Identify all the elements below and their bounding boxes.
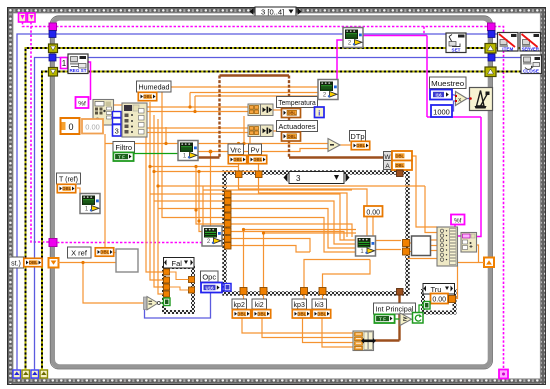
control Temperatura bbox=[282, 109, 301, 118]
wire h y171 bbox=[154, 171, 259, 173]
constant %f pink (left) bbox=[76, 97, 89, 108]
wire case t5 bbox=[196, 167, 231, 225]
reinitialize loop glyph bbox=[413, 313, 424, 324]
wire case stairs top tunnel A bbox=[239, 178, 368, 237]
wire v x166 bbox=[165, 127, 167, 144]
tunnel olive up-arrow right y48 bbox=[485, 44, 496, 54]
wire brown v x219 bbox=[218, 76, 220, 158]
wire case bottom up kp2 bbox=[244, 230, 357, 289]
wire brown v x399 below case bbox=[398, 295, 400, 341]
orange wire mesh left verticals bbox=[58, 87, 484, 347]
0.00 indicator in big case bbox=[364, 206, 383, 217]
bundle node bbox=[353, 331, 376, 351]
svg-text:0: 0 bbox=[68, 122, 73, 132]
green boolean wires bbox=[134, 154, 424, 320]
comparison node 1 bbox=[248, 104, 273, 116]
wire ki2 stem bbox=[263, 294, 265, 309]
wire h y128 bbox=[147, 127, 248, 129]
wire kp3 stem bbox=[303, 294, 305, 309]
sequence selector 3 [0..4] bbox=[250, 7, 302, 17]
label ki3 bbox=[312, 299, 327, 309]
control Vrc DBL bbox=[228, 155, 246, 163]
tunnel blue on left loop border y33 bbox=[49, 31, 56, 38]
wire brown bundle out bbox=[375, 339, 400, 341]
svg-text:REG ST: REG ST bbox=[69, 68, 86, 73]
sequence local (pink) top-left 1 bbox=[19, 13, 27, 22]
wire pink icon2b up bbox=[337, 40, 343, 88]
svg-text:X ref: X ref bbox=[71, 249, 88, 258]
wire pink REG to scan bbox=[88, 62, 91, 100]
big case top tunnels bbox=[236, 171, 263, 178]
DataSocket REG icon bbox=[68, 54, 88, 74]
wire scan to unbundle bbox=[113, 115, 122, 117]
while loop border bbox=[53, 18, 490, 366]
svg-text:0.00: 0.00 bbox=[366, 209, 380, 216]
label kp3 bbox=[292, 299, 307, 309]
wire olive y48 outside right bbox=[495, 47, 541, 49]
wire case stairs s2 bbox=[231, 201, 356, 244]
svg-text:st.): st.) bbox=[11, 261, 21, 268]
scan from string node bbox=[93, 100, 114, 126]
subtract node triangle bbox=[328, 139, 340, 152]
wire build bottom to SR right bbox=[457, 262, 484, 264]
wire cmp1 down bbox=[243, 116, 245, 144]
svg-text:3 [0..4]: 3 [0..4] bbox=[261, 7, 284, 16]
svg-text:1: 1 bbox=[62, 59, 67, 68]
svg-text:Tru: Tru bbox=[431, 285, 442, 294]
DataSocket ITEM icon bbox=[498, 33, 519, 52]
wire pink left vertical (sequence local 2 down to y242) bbox=[31, 22, 49, 242]
Tru selector tunnel green bbox=[424, 302, 431, 310]
svg-text:SERVER: SERVER bbox=[522, 46, 539, 51]
wire icon2c top feeds bbox=[202, 186, 204, 226]
wire v x162 bbox=[162, 87, 231, 218]
wire case stairs s5 bbox=[231, 224, 352, 237]
svg-text:DBL: DBL bbox=[395, 163, 404, 168]
build array node bbox=[437, 227, 458, 266]
svg-text:Humedad: Humedad bbox=[139, 83, 170, 92]
wire blue muestreo bbox=[452, 95, 456, 96]
control st DBL bbox=[24, 258, 42, 266]
wire v x146 bbox=[146, 107, 164, 272]
wire h y111 bbox=[147, 111, 248, 113]
wire v x158 bbox=[158, 119, 164, 294]
wire h y107 bbox=[147, 106, 248, 108]
wire olive left vertical 2 bbox=[42, 72, 49, 371]
wire v x105 Xref feed bbox=[104, 134, 106, 247]
wire blue multiply out bbox=[467, 98, 471, 100]
control kp2 bbox=[232, 310, 250, 318]
wire 0.00 feed bbox=[372, 216, 374, 236]
tunnel blue right y33 bbox=[488, 31, 495, 38]
wire brown v x289 bbox=[288, 76, 290, 158]
subVI icon PID in case bbox=[356, 236, 376, 256]
wire case bottom up kp3 bbox=[304, 260, 370, 289]
wire pink %f to format bbox=[455, 224, 461, 236]
label Temperatura bbox=[277, 97, 318, 108]
subVI plain white bbox=[116, 249, 138, 272]
wire h y143 DTp in1 bbox=[105, 143, 328, 145]
svg-text:ki3: ki3 bbox=[315, 302, 324, 309]
pink string wires solid bbox=[88, 36, 481, 237]
subVI icon PID 2c bbox=[202, 226, 222, 246]
label DTp bbox=[350, 131, 366, 142]
wire stair from WA x416 bbox=[412, 156, 437, 227]
shift register orange right (up arrow) y262 bbox=[484, 258, 494, 268]
wire case t3 bbox=[158, 208, 231, 210]
svg-text:Actuadores: Actuadores bbox=[279, 122, 316, 131]
svg-text:DBL: DBL bbox=[287, 111, 296, 116]
wire ki2 to bundle bbox=[262, 319, 355, 338]
control Int Principal TF bbox=[374, 314, 394, 323]
wire cmp2 down bbox=[249, 137, 251, 152]
indicator DTp DBL bbox=[351, 141, 369, 149]
svg-text:kp2: kp2 bbox=[234, 302, 245, 309]
wire h y92 to icon2b bbox=[190, 92, 318, 94]
wire Vrc stem bbox=[238, 144, 240, 156]
wire magenta y242 inside to icon2c bbox=[57, 242, 202, 244]
control Opc U16 bbox=[201, 283, 222, 293]
wire h y166 bbox=[150, 166, 239, 168]
constant "1" pink bbox=[61, 58, 68, 69]
svg-text:%f: %f bbox=[78, 101, 86, 108]
0.00 indicator in Tru bbox=[431, 294, 449, 304]
wire brown v x399 stub top bbox=[398, 170, 400, 173]
svg-text:0.00: 0.00 bbox=[85, 123, 100, 132]
label kp2 bbox=[232, 299, 247, 309]
wire v x150 bbox=[150, 102, 164, 280]
wire subVI2 outs bbox=[431, 239, 438, 241]
wire pink seq local 1 to y26 bbox=[23, 22, 50, 27]
label Vrc bbox=[228, 144, 244, 155]
svg-text:DBL: DBL bbox=[287, 134, 296, 139]
control ki2 bbox=[252, 310, 270, 318]
svg-text:i: i bbox=[318, 111, 320, 118]
orange junction dots bbox=[81, 105, 265, 264]
wire kp2 stem bbox=[243, 294, 245, 309]
svg-text:T (ref): T (ref) bbox=[59, 177, 78, 184]
svg-text:Opc: Opc bbox=[202, 273, 216, 282]
wire pink v x481 bbox=[476, 117, 481, 237]
wire format out bbox=[475, 245, 479, 263]
svg-text:0.00: 0.00 bbox=[432, 296, 446, 303]
wire kp2 to bundle bbox=[242, 319, 355, 334]
tunnel pink on right loop border y26 bbox=[488, 23, 496, 31]
wire pink h y117 bbox=[427, 116, 481, 118]
svg-text:kp3: kp3 bbox=[294, 302, 305, 309]
svg-text:3: 3 bbox=[115, 127, 119, 136]
big case bottom tunnel brown bbox=[397, 289, 404, 296]
svg-text:Muestreo: Muestreo bbox=[431, 79, 464, 88]
index array node bbox=[122, 103, 147, 137]
wire case stairs s1 bbox=[231, 194, 356, 240]
wire cmp1 to Temperatura bbox=[273, 109, 281, 111]
control Pv DBL bbox=[248, 155, 266, 163]
tunnel olive down-arrow left y71 bbox=[49, 68, 58, 77]
svg-text:Vrc: Vrc bbox=[230, 145, 241, 154]
wire kp3 to bundle bbox=[303, 319, 356, 343]
case structure big (selector 3) bbox=[225, 172, 408, 294]
subVI icon PID 1b bbox=[80, 194, 100, 214]
big case right tunnels bbox=[403, 240, 410, 256]
wire DTp out bbox=[340, 144, 351, 146]
wire blue y57 outside right to CLOSE bbox=[494, 57, 522, 59]
svg-text:CLOSE: CLOSE bbox=[523, 68, 539, 73]
wire brown h y75 bbox=[220, 74, 290, 76]
wire case t7 t8 interior bbox=[231, 239, 310, 253]
wire green loopicon to Tru selector bbox=[419, 305, 424, 313]
tunnel olive down-arrow left y48 bbox=[49, 44, 58, 53]
wire Tref to icon1b bbox=[77, 188, 80, 193]
wire Xref out bbox=[114, 252, 116, 254]
tunnel olive up-arrow right y71 bbox=[485, 67, 496, 77]
wire magenta right of loop to x504 bbox=[494, 27, 504, 371]
wire case stairs s4 bbox=[231, 218, 356, 253]
subVI icon PID 1a bbox=[178, 141, 198, 161]
wire olive y71 outside right bbox=[495, 71, 541, 73]
constant %f pink right bbox=[451, 215, 465, 225]
wire brown from PID1a bbox=[198, 156, 220, 158]
wire blue y33 outside right to ITEM bbox=[494, 33, 499, 35]
wire h y186 long bbox=[158, 185, 425, 187]
label T (ref) bbox=[57, 173, 81, 184]
label Opc bbox=[201, 271, 219, 282]
wire icon out1 bbox=[374, 240, 401, 242]
greater-than node bbox=[400, 313, 412, 326]
label Filtro bbox=[113, 142, 135, 153]
indicator Humedad DBL bbox=[138, 92, 156, 100]
indicator X ref DBL bbox=[95, 248, 113, 256]
comparison node 2 bbox=[248, 125, 273, 137]
wire h y96 to icon2b bbox=[195, 95, 318, 97]
wire green eq0 to Fal selector bbox=[160, 302, 164, 304]
wire olive left vertical 1 bbox=[26, 48, 50, 370]
svg-text:%f: %f bbox=[454, 217, 462, 224]
tunnel pink left loop border y242 bbox=[49, 239, 57, 247]
DataSocket SERVER icon bbox=[520, 33, 541, 52]
Fal case right tunnels bbox=[189, 277, 195, 294]
svg-text:SET: SET bbox=[452, 47, 461, 52]
Fal selector tunnel green bbox=[164, 298, 171, 306]
wire case bottom up ki2 bbox=[264, 233, 357, 288]
wire h y190 long bbox=[203, 189, 352, 191]
svg-text:Pv: Pv bbox=[251, 145, 260, 154]
label Pv bbox=[249, 144, 262, 155]
equal to zero node bbox=[144, 297, 161, 310]
wire Xest down to cmp bbox=[83, 263, 146, 304]
multiply node bbox=[455, 92, 467, 106]
wire case bottom up ki3 bbox=[323, 260, 371, 289]
Tru right tunnel orange bbox=[449, 296, 456, 303]
svg-text:I16: I16 bbox=[435, 92, 442, 97]
sequence local (pink) top-left 2 bbox=[28, 13, 36, 22]
label X ref bbox=[68, 247, 92, 258]
tunnel pink bottom border bbox=[499, 370, 508, 379]
svg-text:Int Principal: Int Principal bbox=[376, 305, 414, 314]
wire olive y48 bbox=[56, 47, 485, 49]
control Filtro TF bbox=[113, 152, 133, 161]
DataSocket Write SET icon bbox=[446, 33, 466, 53]
big case top tunnel brown bbox=[397, 170, 404, 177]
subVI icon PID 2b bbox=[318, 80, 338, 100]
label ki2 bbox=[252, 299, 267, 309]
label Actuadores bbox=[277, 121, 318, 132]
constant 0.00 gray bbox=[82, 119, 103, 134]
wire ki3 stem bbox=[322, 294, 324, 309]
wire case stairs s3 bbox=[231, 209, 356, 249]
wire Tru tunnel up bbox=[454, 266, 458, 299]
svg-text:ki2: ki2 bbox=[255, 302, 264, 309]
wire case t6 bbox=[199, 172, 231, 232]
wire case right tunnel to subVI2 bbox=[409, 242, 412, 244]
svg-text:A: A bbox=[385, 163, 390, 170]
wire brown h y157 to WA bbox=[289, 156, 384, 158]
svg-text:Temperatura: Temperatura bbox=[278, 98, 316, 107]
wire pink dashed x424 bbox=[423, 27, 425, 36]
wire v x154 bbox=[154, 115, 164, 287]
tunnel blue right y57 bbox=[488, 54, 495, 61]
wire SR to subVI y262 bbox=[58, 262, 116, 264]
control Actuadores bbox=[282, 132, 301, 141]
local variable W A bbox=[384, 151, 413, 170]
wire pink v x427 bbox=[426, 36, 428, 118]
shift register orange left (down arrow) bbox=[49, 258, 59, 268]
DataSocket CLOSE icon bbox=[521, 55, 542, 74]
label Humedad bbox=[137, 81, 172, 92]
wire h y87 to icon2b bbox=[162, 86, 318, 88]
control kp3 bbox=[292, 310, 310, 318]
big case selector tunnel blue bbox=[224, 284, 231, 292]
sequence local arrows bottom-left bbox=[13, 370, 48, 378]
tunnel pink on left loop border y26 bbox=[49, 23, 57, 31]
svg-text:W: W bbox=[384, 154, 391, 161]
wire blue cmp to Opc loop bbox=[145, 293, 211, 318]
wire case t2 bbox=[154, 200, 231, 202]
wire magenta top horizontal y26 bbox=[56, 26, 488, 28]
subVI icon PID 2a top bbox=[343, 28, 363, 48]
wire olive y71 bbox=[56, 71, 485, 73]
wire icon out2 bbox=[374, 249, 401, 251]
control Muestreo I16 bbox=[430, 90, 452, 100]
svg-text:1000: 1000 bbox=[433, 107, 450, 116]
constant 1000 bbox=[431, 105, 452, 117]
blue index stack with 3 bbox=[113, 112, 122, 137]
big case bottom tunnels bbox=[240, 288, 326, 295]
wire cmp2 to Actuadores bbox=[273, 130, 281, 132]
svg-text:3: 3 bbox=[296, 174, 301, 183]
iteration terminal i bbox=[315, 107, 325, 118]
wire v x425 from y186 bbox=[425, 186, 437, 233]
wire pink icon2a to right bbox=[363, 35, 427, 37]
wire build row y258 bbox=[407, 258, 437, 260]
wait ms metronome icon bbox=[469, 88, 492, 111]
wire green IntP to cmp bbox=[395, 318, 401, 320]
wire Pv stem bbox=[258, 152, 260, 156]
wire h y132 bbox=[147, 132, 248, 134]
blue int wires bbox=[145, 95, 471, 319]
svg-text:Filtro: Filtro bbox=[115, 143, 132, 152]
label Int Principal bbox=[374, 303, 416, 314]
wire blue y57 bbox=[55, 57, 488, 59]
label st.) partial bbox=[9, 257, 24, 268]
svg-text:ITEM: ITEM bbox=[502, 46, 513, 51]
wire case stairs s6 bbox=[231, 232, 344, 241]
svg-text:Fal: Fal bbox=[172, 259, 183, 268]
wire ki3 to bundle bbox=[322, 319, 355, 348]
wire blue left vertical 1 bbox=[17, 34, 49, 370]
wire case t1 bbox=[150, 193, 231, 195]
big case left tunnels t1-t8 bbox=[225, 191, 232, 249]
svg-text:DBL: DBL bbox=[395, 154, 404, 159]
label Muestreo bbox=[430, 77, 467, 89]
format into string node bbox=[461, 233, 477, 253]
svg-text:DTp: DTp bbox=[350, 132, 364, 141]
Fal inner wires bbox=[170, 272, 189, 290]
wire h y151 from PID1a out bbox=[198, 149, 328, 152]
control T ref DBL bbox=[57, 184, 75, 192]
tunnel blue left y57 bbox=[49, 54, 56, 61]
control ki3 bbox=[312, 310, 330, 318]
Fal case left tunnels bbox=[164, 269, 170, 297]
wire Humedad link bbox=[113, 104, 122, 106]
constant 0 bbox=[61, 118, 80, 134]
subVI2 plain white bbox=[412, 236, 431, 256]
wire icon2c outputs to case t7 t8 bbox=[222, 238, 231, 240]
wire blue U16 to case selector bbox=[222, 287, 225, 289]
case structure Fal bbox=[164, 258, 195, 313]
wire case stairs top tunnel B bbox=[259, 178, 348, 237]
brown cluster wires bbox=[198, 76, 400, 341]
svg-text:U16: U16 bbox=[205, 285, 214, 290]
wire blue left vertical 2 bbox=[35, 58, 50, 371]
wire blue top horizontal y33 bbox=[55, 33, 488, 35]
case structure Tru bbox=[423, 284, 455, 313]
wire green Filtro to PID bbox=[134, 153, 178, 155]
